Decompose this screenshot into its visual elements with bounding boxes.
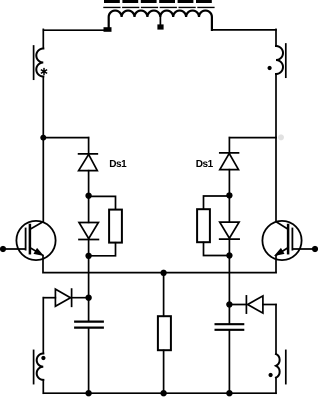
T2b polarity dot <box>269 373 273 377</box>
wire <box>275 378 277 394</box>
Q1 emitter <box>30 248 43 273</box>
Q2 gate lead <box>292 248 315 250</box>
wire middle load vertical upper <box>163 273 165 316</box>
wire left clamp vertical (crosses bus, no dot) <box>88 256 90 321</box>
svg-text:Ds1: Ds1 <box>196 159 214 170</box>
capacitor C1 (left) <box>75 322 103 328</box>
Q2 emitter <box>276 248 288 273</box>
wire right parallel branch bottom <box>204 242 230 255</box>
T2b core bar <box>285 350 287 383</box>
diode Dp (right, pointing down) <box>220 222 239 239</box>
wire middle load vertical lower <box>163 350 165 393</box>
wire right clamp vertical (crosses bus, no dot) <box>228 256 230 324</box>
Q2 channel bar <box>287 225 290 253</box>
transformer winding T2b (bottom-right, 2 humps) <box>276 354 280 378</box>
transformer winding T1b (bottom-left, 2 humps) <box>37 354 44 380</box>
wire <box>42 380 44 393</box>
inductor L1 core lower dashed line <box>104 6 214 8</box>
diode Df1 (lower-left, pointing right) <box>55 289 71 306</box>
diode Ds1 (right) <box>220 153 239 170</box>
wire <box>228 170 230 196</box>
inductor L1 winding (8 humps, center tap) <box>109 11 212 30</box>
L1 center tap terminal square <box>157 24 163 29</box>
wire middle bus <box>43 272 276 274</box>
capacitor C2 (right) <box>216 324 244 330</box>
inductor L1 core top dashed bar <box>104 0 212 3</box>
wire left rail middle segment <box>42 77 44 139</box>
Q1 channel bar <box>29 225 32 253</box>
wire right snubber top <box>229 137 276 139</box>
wire snubber vertical upper <box>88 138 90 154</box>
diode Df2 (lower-right, pointing left) <box>246 296 263 313</box>
IGBT Q1 circle <box>16 221 55 260</box>
Q2 gate terminal dot <box>312 246 318 252</box>
wire left rail top segment <box>42 29 44 48</box>
wire top-right from L1 right end to right rail <box>212 29 276 31</box>
svg-text:Ds1: Ds1 <box>109 159 127 170</box>
wire <box>71 297 89 299</box>
wire left parallel branch top <box>89 196 116 209</box>
transformer winding T2a (top-right, 2 humps) <box>276 46 283 74</box>
Q1 gate bar <box>25 229 27 250</box>
node: right snubber lower junction <box>226 252 232 258</box>
wire lower-right branch <box>229 304 246 306</box>
wire right rail middle segment <box>275 74 277 138</box>
Q2 gate bar <box>291 229 293 250</box>
T1b core bar <box>33 350 35 383</box>
node: left snubber lower junction <box>85 253 91 259</box>
node: bottom bus right junction <box>226 390 232 396</box>
Q2 emitter arrow <box>275 249 284 256</box>
wire lower-left branch top <box>43 297 55 299</box>
T2a core bar <box>285 44 287 77</box>
transformer winding T1a (top-left, 2 humps) <box>36 49 43 77</box>
T1b polarity dot <box>41 356 45 360</box>
wire <box>228 331 230 393</box>
wire <box>263 304 276 306</box>
wire right rail top segment <box>275 29 277 46</box>
Q1 collector <box>30 138 43 230</box>
wire bottom bus <box>43 392 276 394</box>
wire <box>88 329 90 394</box>
node: bus / load junction <box>160 270 166 276</box>
T2a polarity dot <box>268 66 272 70</box>
node: bottom bus left junction <box>85 390 91 396</box>
wire lower-left vertical <box>42 298 44 354</box>
L1 center tap stem <box>159 17 161 25</box>
wire <box>88 171 90 196</box>
node: faint artifact right tap <box>278 134 284 140</box>
wire right snubber vertical upper <box>228 138 230 153</box>
Q1 gate terminal dot <box>0 246 6 252</box>
wire <box>88 196 90 256</box>
node: right snubber upper junction <box>226 192 232 198</box>
Q2 collector <box>276 138 288 230</box>
wire top-left from corner to L1 left terminal <box>43 29 104 31</box>
Q1 emitter arrow <box>34 249 43 256</box>
T1a polarity star <box>42 69 47 75</box>
resistor RL (middle load) <box>158 316 171 350</box>
node: lower-right junction <box>226 301 232 307</box>
Q1 gate lead <box>3 248 26 250</box>
L1 left terminal square <box>104 27 112 32</box>
wire left snubber top <box>43 137 88 139</box>
T1a core bar <box>33 46 35 79</box>
resistor Rs (right snubber) <box>197 209 210 242</box>
node: left rail / snubber tap junction <box>40 135 46 141</box>
wire right parallel branch top <box>204 196 230 209</box>
diode Ds1 (left) <box>79 154 98 171</box>
node: lower-left junction <box>85 295 91 301</box>
wire <box>228 195 230 255</box>
wire left parallel branch bottom <box>89 243 116 256</box>
wire lower-right vertical <box>275 305 277 355</box>
resistor Rs (left snubber) <box>109 210 122 243</box>
IGBT Q2 circle <box>262 221 301 260</box>
node: bottom bus middle junction <box>160 390 166 396</box>
diode Dp (left, pointing down) <box>79 223 98 240</box>
node: left snubber upper junction <box>85 193 91 199</box>
